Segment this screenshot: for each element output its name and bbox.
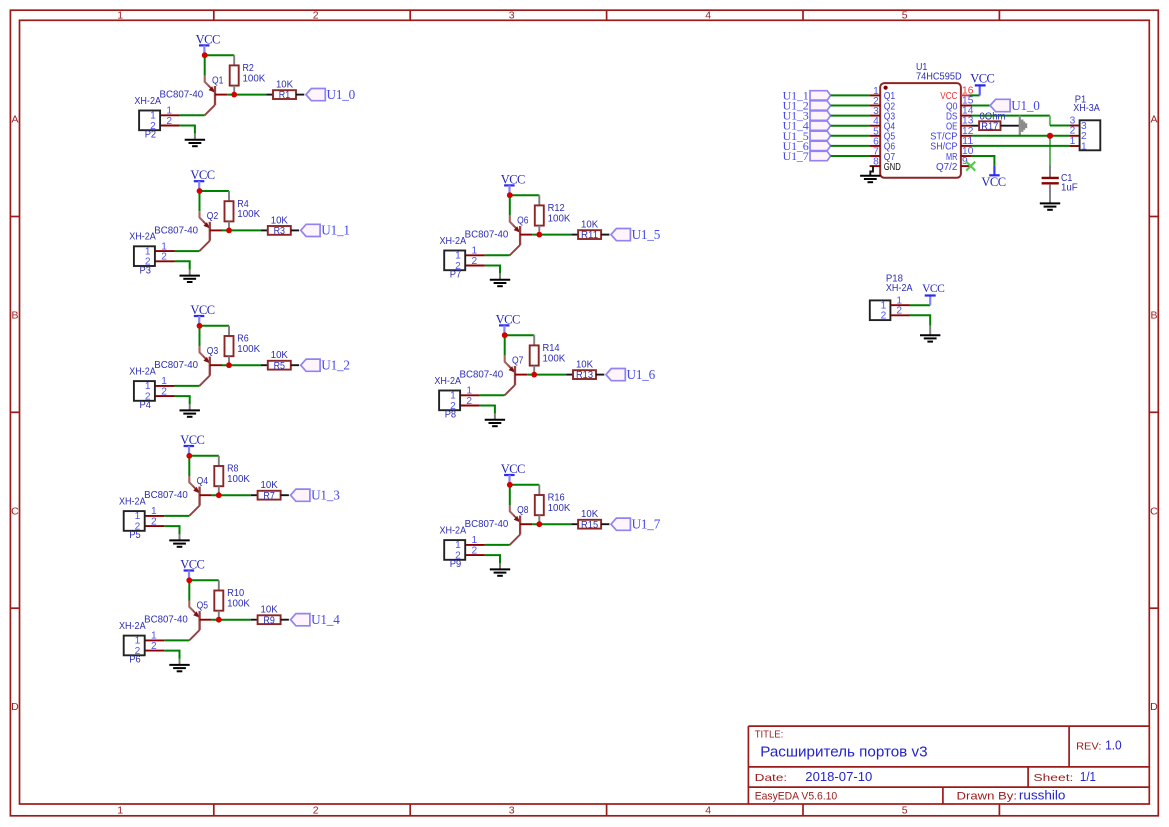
power flag VCC (Q8 circuit) <box>501 462 525 485</box>
wire R17 to gray jumper symbol <box>1001 125 1020 127</box>
wire P8 pin2 to ground <box>480 406 495 414</box>
wire P6 pin1 to Q5 collector <box>164 639 189 641</box>
jumper/bridge symbol (gray) between DS and ST/CP nets <box>1020 116 1027 136</box>
resistor R15 10K <box>571 508 609 531</box>
svg-text:C: C <box>11 505 19 517</box>
svg-text:BC807-40: BC807-40 <box>144 615 188 626</box>
wire P9 pin2 to ground <box>485 555 500 563</box>
pin 16 (VCC) of U1 <box>940 85 973 102</box>
wire U1 pin 11 SH/CP to P1 pin 1 <box>972 145 1070 147</box>
node base junction (Q2) <box>226 228 232 234</box>
ground P2 pin2 <box>185 140 205 146</box>
svg-text:R17: R17 <box>981 121 998 133</box>
svg-text:100K: 100K <box>237 208 260 220</box>
pin 1 (Q1) of U1 <box>870 86 896 102</box>
svg-text:100K: 100K <box>237 343 260 355</box>
wire P2 pin2 to ground <box>180 126 195 134</box>
resistor R2 100K <box>230 55 266 94</box>
svg-text:1uF: 1uF <box>1061 182 1078 194</box>
svg-text:XH-3A: XH-3A <box>1073 102 1100 114</box>
connector P9 XH-2A <box>440 525 485 571</box>
resistor R4 100K <box>225 191 261 230</box>
wire U1_1 to U1 pin 1 <box>831 94 870 96</box>
svg-text:R13: R13 <box>576 369 593 381</box>
ground P4 pin2 <box>180 410 200 416</box>
net flag U1_7 <box>611 516 661 531</box>
node VCC junction (Q7 circuit) <box>502 332 508 338</box>
svg-text:B: B <box>1150 310 1157 322</box>
wire VCC node to R4 top <box>200 190 230 192</box>
wire P5 pin2 to ground <box>164 526 179 534</box>
pin 10 (MR) of U1 <box>946 146 974 163</box>
svg-text:U1_4: U1_4 <box>311 612 340 627</box>
power flag VCC (U1 pin 16) <box>970 72 994 96</box>
resistor R12 100K <box>535 195 571 234</box>
net flag U1_5 (into U1 pin 5) <box>783 129 831 143</box>
wire VCC node to Q2 emitter <box>199 191 201 211</box>
svg-text:2: 2 <box>161 386 167 397</box>
connector P8 XH-2A <box>434 375 479 421</box>
title block <box>748 726 1149 804</box>
resistor R7 10K <box>251 479 289 502</box>
pin 2 (Q2) of U1 <box>870 96 896 112</box>
wire U1 pin 13 OE to R17 <box>972 125 980 127</box>
svg-text:2: 2 <box>135 646 141 657</box>
svg-text:2: 2 <box>455 550 461 561</box>
svg-text:1: 1 <box>117 805 123 817</box>
pin 3 (Q3) of U1 <box>870 106 896 122</box>
svg-text:U1_2: U1_2 <box>321 357 350 372</box>
svg-text:2: 2 <box>150 121 156 132</box>
svg-text:5: 5 <box>902 9 908 21</box>
pin 6 (Q6) of U1 <box>870 136 896 152</box>
svg-text:100K: 100K <box>243 72 266 84</box>
svg-text:Q7/2: Q7/2 <box>936 162 958 173</box>
frame row labels left <box>11 114 19 714</box>
pin 14 (DS) of U1 <box>946 106 974 123</box>
ground P5 pin2 <box>169 540 189 546</box>
svg-text:A: A <box>11 114 18 126</box>
svg-text:R11: R11 <box>581 229 598 241</box>
svg-text:1: 1 <box>117 9 123 21</box>
svg-text:100K: 100K <box>543 352 566 364</box>
net flag U1_6 <box>606 367 656 382</box>
connector P1 XH-3A <box>1069 93 1100 152</box>
frame column labels top <box>117 9 908 21</box>
wire P7 pin1 to Q6 collector <box>485 254 510 256</box>
svg-text:2: 2 <box>161 252 167 263</box>
wire U1_4 to U1 pin 4 <box>831 125 870 127</box>
svg-text:U1_1: U1_1 <box>321 223 350 238</box>
svg-text:XH-2A: XH-2A <box>440 525 467 537</box>
node base junction (Q4) <box>216 492 222 498</box>
svg-text:BC807-40: BC807-40 <box>460 370 504 381</box>
ground P8 pin2 <box>485 420 505 426</box>
pin 11 (SH/CP) of U1 <box>930 136 973 153</box>
net flag U1_3 <box>291 487 341 502</box>
svg-text:2: 2 <box>313 9 319 21</box>
pin 7 (Q7) of U1 <box>870 147 896 163</box>
node VCC junction (Q3 circuit) <box>197 323 203 329</box>
frame column ticks top <box>214 10 1000 20</box>
wire base node (Q5) <box>212 619 251 621</box>
svg-text:U1_6: U1_6 <box>627 367 656 382</box>
svg-text:XH-2A: XH-2A <box>119 496 146 508</box>
power flag VCC (Q3 circuit) <box>190 303 214 326</box>
svg-text:R9: R9 <box>263 614 275 626</box>
resistor R17 0Ohm <box>979 111 1006 133</box>
net flag U1_2 <box>301 357 350 372</box>
svg-text:3: 3 <box>509 9 515 21</box>
svg-text:U1_5: U1_5 <box>632 227 661 242</box>
connector P5 XH-2A <box>119 496 164 542</box>
svg-text:2: 2 <box>472 545 478 556</box>
pin 4 (Q4) of U1 <box>870 116 896 132</box>
svg-text:B: B <box>11 310 18 322</box>
node base junction (Q6) <box>536 232 542 238</box>
wire U1 pin 8 GND to ground <box>870 166 873 176</box>
svg-text:2018-07-10: 2018-07-10 <box>805 769 872 784</box>
ground U1 GND <box>860 176 880 182</box>
ground P3 pin2 <box>180 276 200 282</box>
net flag U1_0 <box>306 87 356 102</box>
svg-text:2: 2 <box>145 257 151 268</box>
node base junction (Q1) <box>231 92 237 98</box>
svg-text:2: 2 <box>472 256 478 267</box>
svg-text:Q2: Q2 <box>207 210 219 222</box>
resistor R13 10K <box>566 359 604 382</box>
resistor R11 10K <box>571 219 609 242</box>
frame row ticks right <box>1149 217 1158 609</box>
connector P2 XH-2A <box>134 95 179 141</box>
svg-text:VCC: VCC <box>970 72 994 86</box>
svg-text:BC807-40: BC807-40 <box>154 225 198 236</box>
transistor Q7 BC807-40 <box>460 354 528 395</box>
resistor R1 10K <box>266 79 304 102</box>
net flag U1_3 (into U1 pin 3) <box>783 109 831 123</box>
node VCC junction (Q8 circuit) <box>507 482 513 488</box>
frame row ticks left <box>10 217 19 609</box>
connector P3 XH-2A <box>129 231 174 277</box>
svg-text:R15: R15 <box>581 519 598 531</box>
wire VCC node to R6 top <box>200 325 230 327</box>
wire VCC node to R16 top <box>510 484 540 486</box>
svg-text:5: 5 <box>902 805 908 817</box>
svg-text:4: 4 <box>705 9 711 21</box>
svg-text:Q4: Q4 <box>197 475 209 487</box>
svg-text:100K: 100K <box>548 212 571 224</box>
wire P4 pin1 to Q3 collector <box>175 385 200 387</box>
net flag U1_6 (into U1 pin 6) <box>783 139 831 153</box>
wire P18 pin 2 to ground <box>910 315 931 325</box>
svg-text:EasyEDA V5.6.10: EasyEDA V5.6.10 <box>755 790 838 802</box>
node base junction (Q3) <box>226 362 232 368</box>
net flag U1_1 <box>301 223 350 238</box>
svg-text:2: 2 <box>151 516 157 527</box>
svg-text:1: 1 <box>1081 141 1087 152</box>
wire P3 pin2 to ground <box>175 261 190 269</box>
wire U1 pin 15 Q0 to U1_0 <box>972 105 991 107</box>
pin 9 (Q7/2) of U1 <box>936 156 972 173</box>
svg-text:100K: 100K <box>227 473 250 485</box>
wire junction to C1 <box>1049 136 1051 166</box>
pin 5 (Q5) of U1 <box>870 126 896 142</box>
wire base node (Q6) <box>532 234 571 236</box>
transistor Q3 BC807-40 <box>154 345 222 386</box>
wire P6 pin2 to ground <box>164 651 179 659</box>
node base junction (Q8) <box>536 521 542 527</box>
wire U1_5 to U1 pin 5 <box>831 135 870 137</box>
svg-text:D: D <box>1150 701 1158 713</box>
wire U1 pin 16 to VCC <box>970 94 980 96</box>
svg-text:100K: 100K <box>548 502 571 514</box>
node VCC junction (Q1 circuit) <box>202 52 208 58</box>
wire VCC node to R8 top <box>189 455 219 457</box>
transistor Q5 BC807-40 <box>144 599 212 640</box>
pin 12 (ST/CP) of U1 <box>930 126 973 143</box>
wire VCC node to Q5 emitter <box>188 580 190 600</box>
svg-text:TITLE:: TITLE: <box>755 730 784 741</box>
svg-text:XH-2A: XH-2A <box>119 620 146 632</box>
svg-text:2: 2 <box>166 116 172 127</box>
wire base node (Q7) <box>527 374 566 376</box>
wire base node (Q3) <box>222 364 261 366</box>
wire base node (Q8) <box>532 523 571 525</box>
net flag U1_0 (Q0 output) <box>990 98 1040 113</box>
svg-text:U1_0: U1_0 <box>1011 98 1040 113</box>
svg-text:U1_3: U1_3 <box>311 487 340 502</box>
no-connect cross (U1 pin 9 Q7/2) <box>966 162 975 171</box>
svg-text:2: 2 <box>466 396 472 407</box>
wire U1 pin 12 ST/CP to P1 pin 2 <box>972 135 1070 137</box>
power flag VCC (Q4 circuit) <box>180 433 204 456</box>
frame column labels bottom <box>117 805 908 817</box>
resistor R3 10K <box>261 214 299 237</box>
frame column ticks bottom <box>214 804 1000 816</box>
power flag VCC (Q7 circuit) <box>496 312 520 335</box>
svg-text:3: 3 <box>509 805 515 817</box>
svg-text:XH-2A: XH-2A <box>134 95 161 107</box>
wire base node (Q4) <box>212 494 251 496</box>
wire P2 pin1 to Q1 collector <box>180 114 205 116</box>
wire base node (Q2) <box>222 229 261 231</box>
pin 8 (GND) of U1 <box>870 157 901 173</box>
svg-text:R5: R5 <box>274 360 286 372</box>
transistor Q1 BC807-40 <box>160 74 228 115</box>
resistor R9 10K <box>251 604 289 627</box>
svg-text:XH-2A: XH-2A <box>129 366 156 378</box>
svg-text:BC807-40: BC807-40 <box>160 90 204 101</box>
node base junction (Q7) <box>531 372 537 378</box>
wire VCC node to R12 top <box>510 194 540 196</box>
node VCC junction (Q5 circuit) <box>186 577 192 583</box>
wire VCC node to Q3 emitter <box>199 326 201 346</box>
transistor Q6 BC807-40 <box>465 214 533 255</box>
transistor Q4 BC807-40 <box>144 475 212 516</box>
svg-text:2: 2 <box>450 401 456 412</box>
svg-text:A: A <box>1150 114 1157 126</box>
wire VCC node to Q4 emitter <box>188 456 190 476</box>
wire P9 pin1 to Q8 collector <box>485 544 510 546</box>
power flag VCC (Q5 circuit) <box>180 558 204 581</box>
ground P7 pin2 <box>490 280 510 286</box>
svg-text:Q8: Q8 <box>517 504 529 516</box>
svg-text:Sheet:: Sheet: <box>1033 772 1073 784</box>
svg-text:BC807-40: BC807-40 <box>465 519 509 530</box>
resistor R6 100K <box>225 326 261 365</box>
svg-text:Date:: Date: <box>755 772 788 784</box>
resistor R16 100K <box>535 485 571 524</box>
ground C1 <box>1040 203 1060 209</box>
wire VCC node to Q7 emitter <box>504 335 506 355</box>
svg-text:VCC: VCC <box>922 283 945 295</box>
wire P18 pin 1 to VCC <box>910 304 931 306</box>
svg-text:BC807-40: BC807-40 <box>144 490 188 501</box>
svg-text:2: 2 <box>455 261 461 272</box>
svg-text:C: C <box>1150 505 1158 517</box>
svg-text:GND: GND <box>884 162 901 173</box>
power flag VCC (Q2 circuit) <box>190 168 214 191</box>
transistor Q8 BC807-40 <box>465 504 533 545</box>
wire VCC node to Q6 emitter <box>509 195 511 215</box>
wire P5 pin1 to Q4 collector <box>164 515 189 517</box>
svg-text:REV:: REV: <box>1076 741 1101 753</box>
svg-text:XH-2A: XH-2A <box>434 375 461 387</box>
svg-text:2: 2 <box>881 311 887 322</box>
connector P4 XH-2A <box>129 366 174 412</box>
ic U1 74HC595D body <box>880 61 962 178</box>
net flag U1_1 (into U1 pin 1) <box>783 88 831 102</box>
power flag VCC (U1 pin 10 MR) <box>981 165 1005 188</box>
svg-text:74HC595D: 74HC595D <box>916 70 962 82</box>
power flag VCC (Q6 circuit) <box>501 172 525 195</box>
resistor R14 100K <box>530 335 566 374</box>
svg-text:Q5: Q5 <box>197 599 209 611</box>
svg-text:D: D <box>11 701 19 713</box>
svg-text:U1_0: U1_0 <box>327 87 356 102</box>
svg-text:Q6: Q6 <box>517 214 529 226</box>
wire VCC node to R14 top <box>505 334 535 336</box>
connector P7 XH-2A <box>440 235 485 281</box>
connector P18 XH-2A <box>870 273 913 322</box>
wire U1 pin 14 DS to P1 pin 3 <box>972 116 1070 126</box>
pin 1 indicator dot U1 <box>884 86 888 90</box>
wire P4 pin2 to ground <box>175 396 190 404</box>
svg-text:russhilo: russhilo <box>1019 787 1066 802</box>
net flag U1_4 (into U1 pin 4) <box>783 119 831 133</box>
svg-text:Q7: Q7 <box>512 354 524 366</box>
svg-text:Расширитель портов v3: Расширитель портов v3 <box>760 743 927 760</box>
resistor R8 100K <box>214 456 250 495</box>
wire U1_2 to U1 pin 2 <box>831 105 870 107</box>
wire base node (Q1) <box>227 94 266 96</box>
svg-text:2: 2 <box>313 805 319 817</box>
svg-text:U1_7: U1_7 <box>632 516 661 531</box>
svg-text:BC807-40: BC807-40 <box>154 360 198 371</box>
node VCC junction (Q2 circuit) <box>197 188 203 194</box>
pin 13 (OE) of U1 <box>946 116 974 133</box>
transistor Q2 BC807-40 <box>154 210 222 251</box>
svg-text:2: 2 <box>151 641 157 652</box>
svg-text:VCC: VCC <box>981 175 1005 189</box>
svg-text:XH-2A: XH-2A <box>886 282 913 294</box>
wire VCC node to Q8 emitter <box>509 485 511 505</box>
resistor R10 100K <box>214 580 250 619</box>
svg-text:Q1: Q1 <box>212 74 224 86</box>
svg-text:XH-2A: XH-2A <box>440 235 467 247</box>
node junction (ST/CP net, C1 tap) <box>1047 133 1053 139</box>
power flag VCC (Q1 circuit) <box>196 32 220 55</box>
net flag U1_4 <box>291 612 341 627</box>
svg-text:R1: R1 <box>279 89 291 101</box>
wire VCC node to R2 top <box>205 54 235 56</box>
svg-text:U1_7: U1_7 <box>783 149 809 163</box>
wire U1_6 to U1 pin 6 <box>831 145 870 147</box>
svg-text:R3: R3 <box>274 225 286 237</box>
wire U1_3 to U1 pin 3 <box>831 115 870 117</box>
svg-text:XH-2A: XH-2A <box>129 231 156 243</box>
power flag VCC (P18) <box>922 283 945 305</box>
resistor R5 10K <box>261 349 299 372</box>
ground P9 pin2 <box>490 569 510 575</box>
node VCC junction (Q4 circuit) <box>186 453 192 459</box>
svg-text:2: 2 <box>135 521 141 532</box>
node VCC junction (Q6 circuit) <box>507 192 513 198</box>
ground P6 pin2 <box>169 665 189 671</box>
capacitor C1 1uF <box>1042 166 1078 204</box>
svg-text:Q3: Q3 <box>207 345 219 357</box>
ground P18 pin2 <box>920 335 940 341</box>
svg-text:R7: R7 <box>263 490 275 502</box>
net flag U1_5 <box>611 227 661 242</box>
wire P3 pin1 to Q2 collector <box>175 250 200 252</box>
net flag U1_2 (into U1 pin 2) <box>783 99 831 113</box>
wire U1 pin 10 MR to VCC <box>972 156 995 165</box>
svg-text:8: 8 <box>873 157 879 168</box>
svg-text:1/1: 1/1 <box>1080 769 1096 784</box>
connector P6 XH-2A <box>119 620 164 666</box>
svg-text:2: 2 <box>145 391 151 402</box>
wire U1_7 to U1 pin 7 <box>831 155 870 157</box>
wire VCC node to Q1 emitter <box>204 55 206 75</box>
node base junction (Q5) <box>216 617 222 623</box>
frame row labels right <box>1150 114 1158 714</box>
svg-text:Drawn By:: Drawn By: <box>957 790 1018 802</box>
svg-text:1.0: 1.0 <box>1105 738 1122 753</box>
svg-text:1: 1 <box>1070 136 1076 147</box>
wire P8 pin1 to Q7 collector <box>480 394 505 396</box>
svg-text:BC807-40: BC807-40 <box>465 230 509 241</box>
svg-text:2: 2 <box>896 306 902 317</box>
net flag U1_7 (into U1 pin 7) <box>783 149 831 163</box>
wire VCC node to R10 top <box>189 579 219 581</box>
pin 15 (Q0) of U1 <box>946 96 974 113</box>
svg-text:4: 4 <box>705 805 711 817</box>
svg-text:100K: 100K <box>227 598 250 610</box>
wire P7 pin2 to ground <box>485 266 500 274</box>
